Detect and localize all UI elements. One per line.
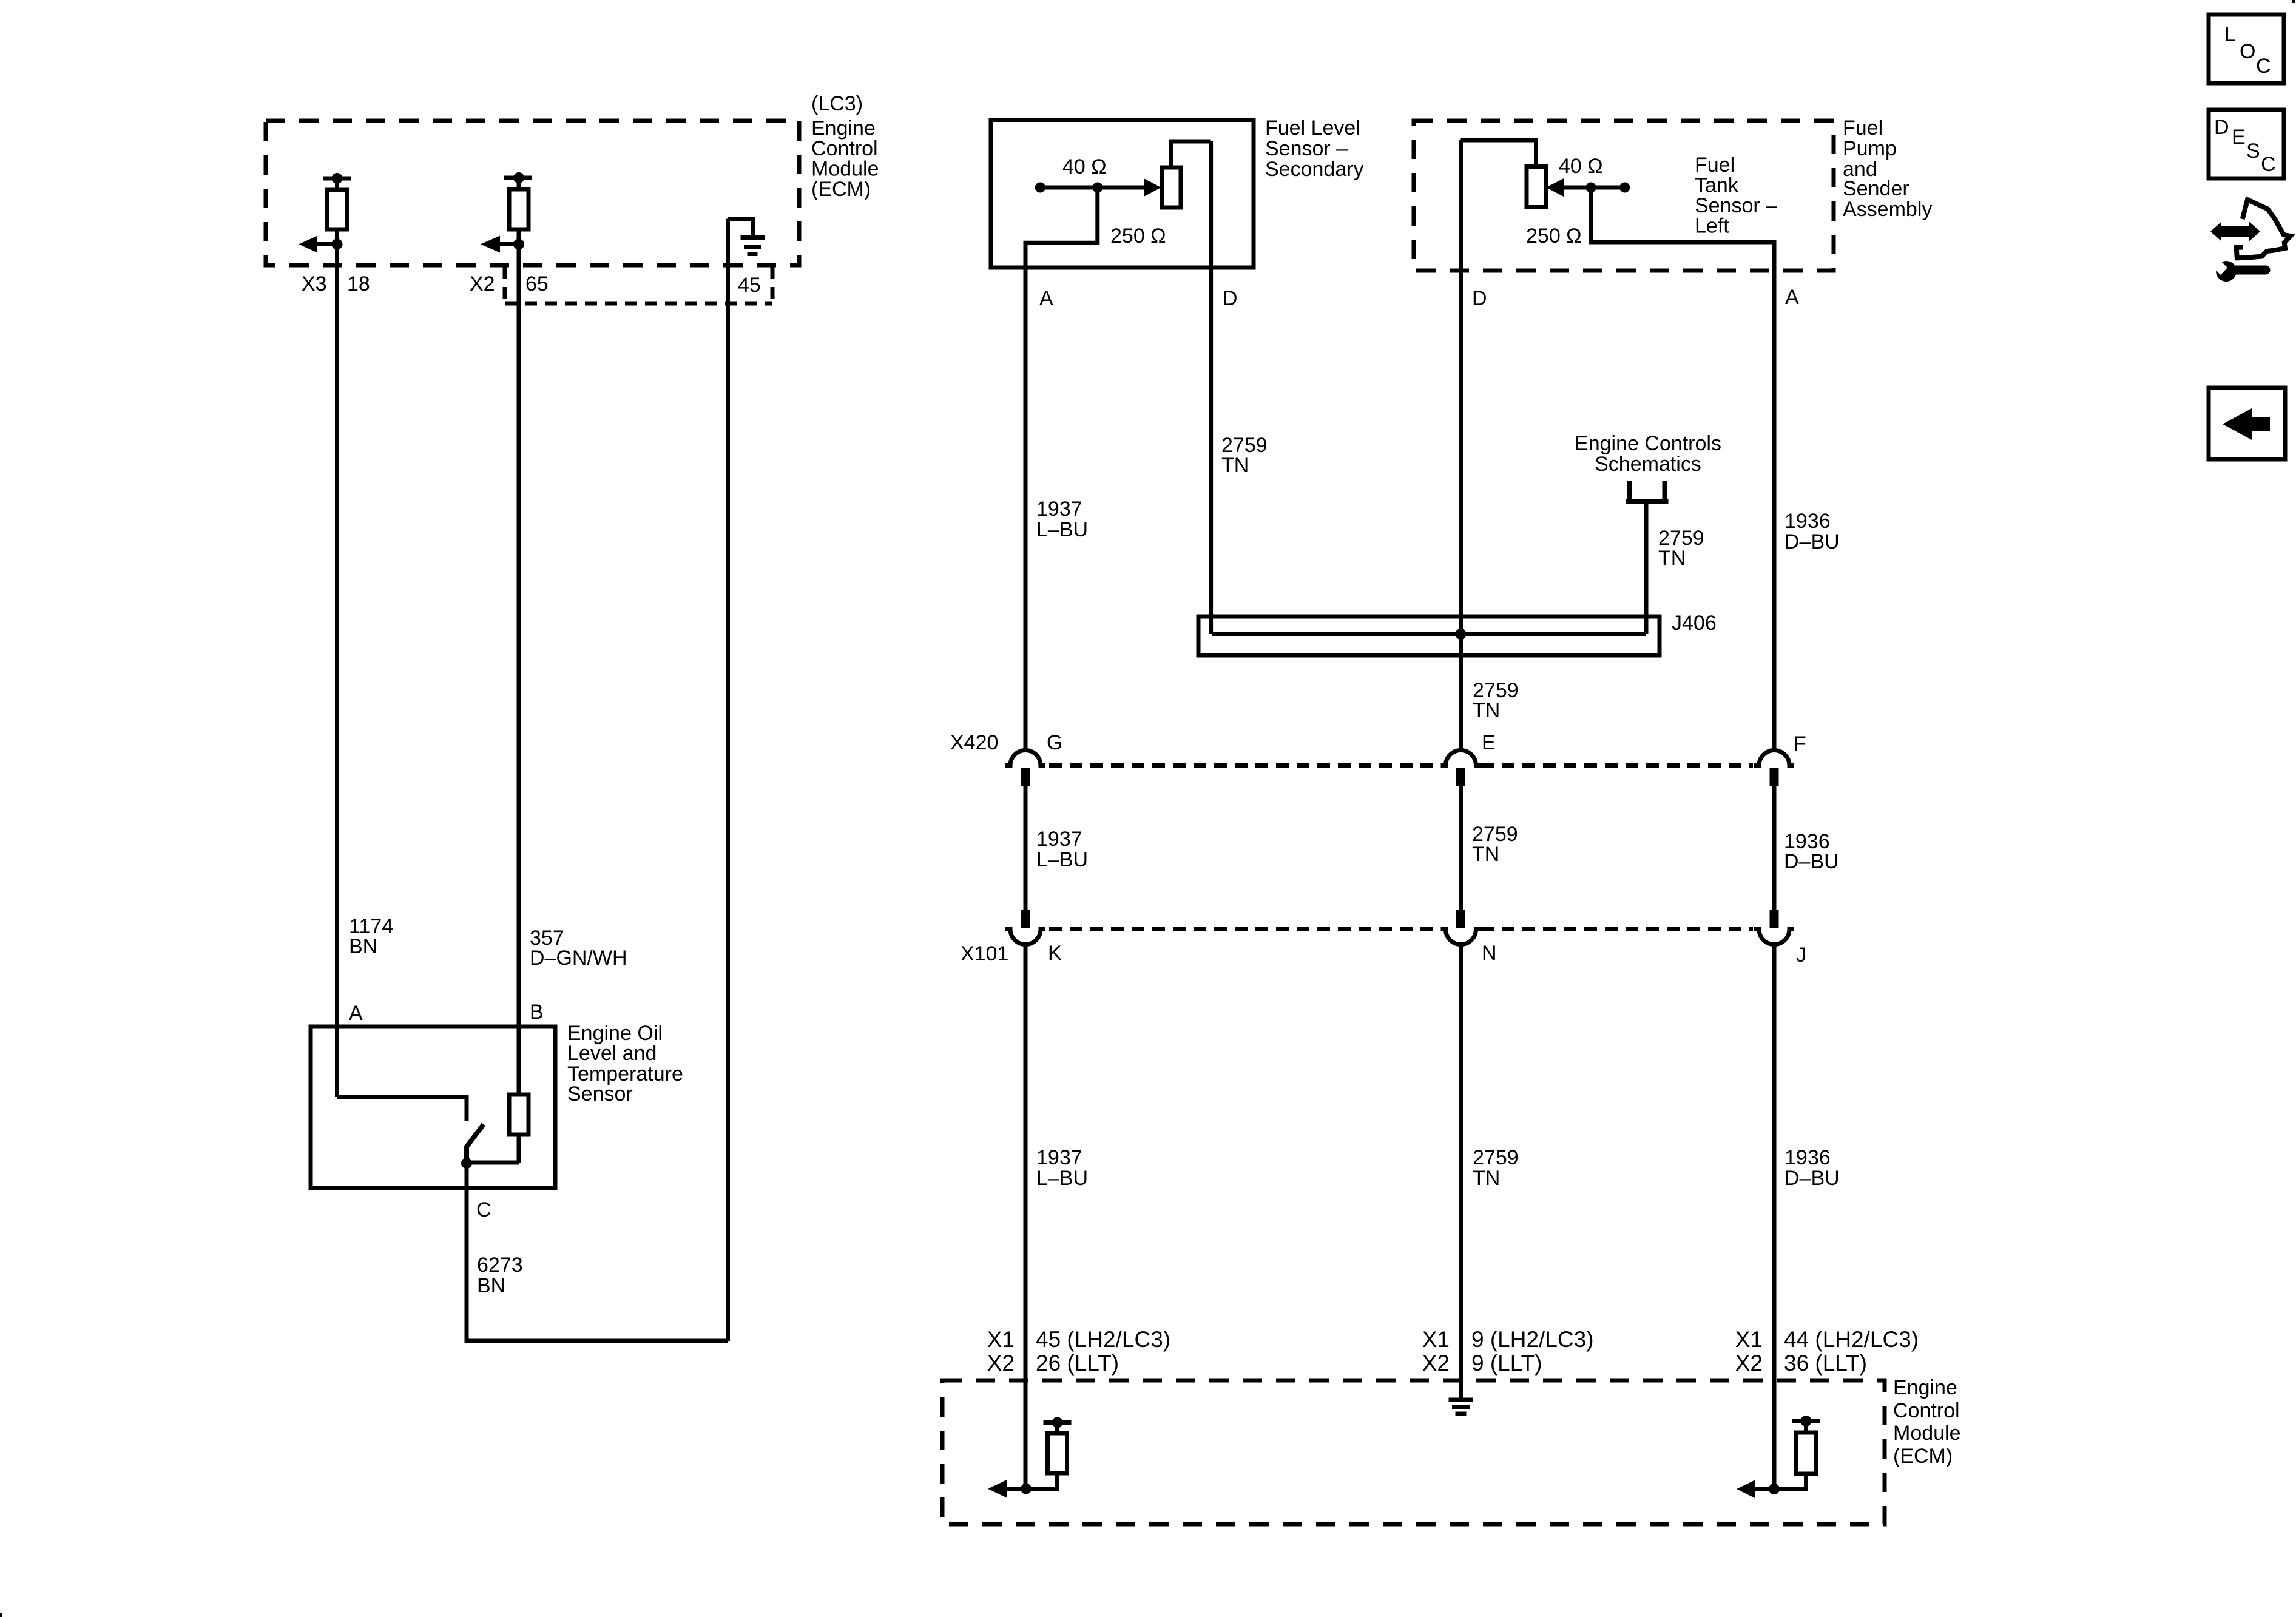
signal arrow at ECM pin X3-18 bbox=[299, 236, 337, 253]
wire 357 D-GN/WH (ECM pin 65 down to sensor pin B) bbox=[517, 245, 521, 1095]
signal arrow at ECM X1-44 bbox=[1737, 1480, 1774, 1499]
wire label 1937 L-BU (lower) bbox=[1036, 1146, 1088, 1190]
signal arrow at ECM X1-45 bbox=[988, 1480, 1026, 1498]
svg-text:Module: Module bbox=[811, 158, 879, 181]
Fuel Level Sensor - Secondary box bbox=[991, 120, 1254, 268]
svg-text:BN: BN bbox=[477, 1274, 505, 1297]
svg-text:Engine Controls: Engine Controls bbox=[1575, 432, 1721, 455]
svg-text:X2: X2 bbox=[987, 1351, 1015, 1376]
off-page reference: Engine Controls Schematics bbox=[1575, 432, 1721, 476]
svg-text:(ECM): (ECM) bbox=[1893, 1445, 1953, 1468]
wire 2759 TN (tank D down through J406 and connectors) bbox=[1459, 140, 1463, 751]
connector terminal X101-J bbox=[1754, 910, 1794, 945]
svg-text:L–BU: L–BU bbox=[1036, 518, 1088, 541]
connector row X420 dashed line bbox=[1049, 763, 1753, 768]
svg-text:C: C bbox=[2256, 55, 2271, 78]
ECM pin label X2 (left) bbox=[987, 1351, 1015, 1376]
ECM pin label 9 (LLT) bbox=[1471, 1351, 1542, 1376]
potentiometer wiper (left tank sensor) bbox=[1546, 178, 1630, 197]
svg-text:X2: X2 bbox=[470, 272, 495, 295]
svg-text:Engine: Engine bbox=[811, 117, 876, 140]
svg-text:Sender: Sender bbox=[1843, 177, 1909, 200]
svg-text:45: 45 bbox=[738, 274, 761, 297]
svg-text:E: E bbox=[2232, 126, 2246, 149]
svg-text:Tank: Tank bbox=[1695, 174, 1739, 197]
svg-text:1937: 1937 bbox=[1036, 1146, 1082, 1169]
icon service/remove (double arrow) bbox=[2210, 222, 2260, 241]
svg-text:9 (LLT): 9 (LLT) bbox=[1471, 1351, 1542, 1376]
svg-text:1937: 1937 bbox=[1036, 498, 1082, 521]
svg-text:6273: 6273 bbox=[477, 1254, 523, 1277]
splice pack J406 bbox=[1198, 616, 1660, 655]
icon DESC box bbox=[2209, 110, 2284, 178]
resistor R5 (oil temperature sensing element) bbox=[467, 1095, 528, 1163]
svg-text:D–BU: D–BU bbox=[1784, 530, 1840, 553]
svg-text:X101: X101 bbox=[961, 942, 1008, 965]
svg-text:O: O bbox=[2240, 40, 2255, 63]
label J406 bbox=[1672, 612, 1717, 635]
ECM (LC3) dashed module box bbox=[266, 121, 799, 265]
svg-text:9 (LH2/LC3): 9 (LH2/LC3) bbox=[1471, 1327, 1594, 1352]
svg-text:TN: TN bbox=[1658, 547, 1686, 570]
pin label D (secondary sensor) bbox=[1223, 287, 1238, 310]
label: Fuel Tank Sensor - Left bbox=[1695, 154, 1777, 238]
svg-text:B: B bbox=[530, 1001, 544, 1024]
resistor R3 (secondary sender element) bbox=[1162, 141, 1211, 208]
resistor R1 (ECM internal, pin X3-18) bbox=[323, 173, 351, 245]
svg-text:Fuel: Fuel bbox=[1843, 116, 1883, 140]
ECM pin label X1 (left) bbox=[987, 1327, 1015, 1352]
Engine Oil Level and Temperature Sensor box bbox=[311, 1027, 555, 1188]
pin label X3 bbox=[302, 272, 327, 295]
wire label 2759 TN (upper, pin D secondary) bbox=[1221, 434, 1268, 477]
junction node at pin 65 bbox=[513, 239, 524, 250]
svg-text:X1: X1 bbox=[1422, 1327, 1450, 1352]
icon service/remove (wrench) bbox=[2207, 254, 2266, 282]
pin label E bbox=[1482, 731, 1496, 754]
ECM pin label X2 (right) bbox=[1735, 1351, 1763, 1376]
value label 250 ohm (secondary) bbox=[1110, 224, 1166, 248]
ECM pin label X1 (middle) bbox=[1422, 1327, 1450, 1352]
svg-text:G: G bbox=[1047, 731, 1062, 754]
svg-text:D: D bbox=[1223, 287, 1238, 310]
ground symbol inside ECM (pin 45) bbox=[728, 219, 765, 257]
icon service/remove (component outline) bbox=[2237, 200, 2291, 258]
svg-text:2759: 2759 bbox=[1473, 1146, 1519, 1169]
corner speck bottom left bbox=[0, 1613, 2, 1617]
svg-text:Fuel: Fuel bbox=[1695, 154, 1735, 177]
pin label N bbox=[1482, 942, 1497, 965]
svg-text:Sensor –: Sensor – bbox=[1695, 194, 1777, 217]
label: Fuel Pump and Sender Assembly bbox=[1843, 116, 1932, 221]
wire 1174 BN (ECM pin 18 down to sensor pin A) bbox=[335, 245, 339, 1098]
pin label D (left tank sensor) bbox=[1472, 287, 1487, 310]
potentiometer wiper (secondary sensor) bbox=[1035, 178, 1161, 197]
svg-text:X1: X1 bbox=[987, 1327, 1015, 1352]
svg-text:Left: Left bbox=[1695, 215, 1729, 238]
ECM pin label 45 (LH2/LC3) bbox=[1036, 1327, 1170, 1352]
pin label 18 bbox=[347, 272, 370, 295]
svg-text:D–BU: D–BU bbox=[1784, 850, 1839, 873]
label X420 bbox=[950, 731, 998, 754]
svg-text:44 (LH2/LC3): 44 (LH2/LC3) bbox=[1784, 1327, 1919, 1352]
wire label 1936 D-BU (upper) bbox=[1784, 510, 1840, 553]
ECM pin label 26 (LLT) bbox=[1036, 1351, 1119, 1376]
corner speck top right bbox=[2292, 0, 2295, 3]
connector terminal X101-K bbox=[1005, 910, 1045, 945]
connector terminal X420-F bbox=[1754, 751, 1794, 787]
value label 40 ohm (secondary) bbox=[1062, 155, 1107, 178]
off-page connector symbol bbox=[1626, 481, 1669, 502]
label: (LC3) Engine Control Module (ECM) bbox=[811, 92, 879, 201]
svg-text:Module: Module bbox=[1893, 1422, 1961, 1445]
connector row X101 dashed line bbox=[1049, 927, 1753, 931]
svg-text:Secondary: Secondary bbox=[1265, 158, 1364, 181]
svg-text:40 Ω: 40 Ω bbox=[1062, 155, 1107, 178]
resistor R6 (ECM internal, left) bbox=[1026, 1417, 1072, 1489]
svg-text:D–GN/WH: D–GN/WH bbox=[530, 947, 627, 970]
Engine Control Module (ECM) bottom dashed box bbox=[942, 1380, 1885, 1524]
svg-text:X3: X3 bbox=[302, 272, 327, 295]
pin label K bbox=[1048, 942, 1062, 965]
wire label 1937 L-BU (upper) bbox=[1036, 498, 1088, 541]
pin label 45 bbox=[738, 274, 761, 297]
svg-text:D: D bbox=[1472, 287, 1487, 310]
wire 1937 L-BU (X101-K to ECM X1-45) bbox=[1024, 944, 1028, 1489]
svg-text:S: S bbox=[2246, 140, 2260, 163]
junction node at pin 18 bbox=[332, 239, 343, 250]
svg-text:F: F bbox=[1794, 732, 1806, 755]
svg-text:(ECM): (ECM) bbox=[811, 178, 871, 201]
resistor R4 (left tank sender element) bbox=[1461, 140, 1546, 208]
svg-text:1936: 1936 bbox=[1784, 1146, 1831, 1169]
svg-text:26 (LLT): 26 (LLT) bbox=[1036, 1351, 1119, 1376]
svg-text:A: A bbox=[1039, 287, 1053, 310]
svg-text:65: 65 bbox=[525, 272, 549, 295]
wire label 1937 L-BU (middle) bbox=[1036, 828, 1088, 871]
svg-text:D–BU: D–BU bbox=[1784, 1167, 1840, 1190]
wire 1936 D-BU (X420-F to X101-J) bbox=[1772, 786, 1777, 911]
junction node (secondary 250 ohm tap) bbox=[1092, 183, 1102, 193]
signal arrow at ECM pin X2-65 bbox=[481, 236, 519, 253]
svg-text:250 Ω: 250 Ω bbox=[1526, 224, 1582, 248]
svg-text:X420: X420 bbox=[950, 731, 998, 754]
svg-text:250 Ω: 250 Ω bbox=[1110, 224, 1166, 248]
pin label A (secondary sensor) bbox=[1039, 287, 1053, 310]
svg-text:18: 18 bbox=[347, 272, 370, 295]
wire 1937 L-BU (X420-G to X101-K) bbox=[1024, 786, 1028, 911]
svg-text:D: D bbox=[2214, 116, 2229, 139]
label X101 bbox=[961, 942, 1008, 965]
svg-text:J: J bbox=[1796, 944, 1806, 967]
junction node on J406 bus bbox=[1456, 629, 1467, 640]
svg-text:Schematics: Schematics bbox=[1595, 453, 1701, 476]
Fuel Pump and Sender Assembly dashed box bbox=[1414, 121, 1834, 271]
wire label 6273 BN bbox=[477, 1254, 523, 1297]
wire 2759 TN (X420-E to X101-N) bbox=[1459, 786, 1463, 911]
svg-text:BN: BN bbox=[349, 935, 377, 958]
ECM pin label X2 (middle) bbox=[1422, 1351, 1450, 1376]
wire 1937 L-BU (sensor A down through connectors to ECM) bbox=[1025, 187, 1098, 751]
oil level switch (inside sensor) bbox=[337, 1097, 484, 1163]
svg-text:L: L bbox=[2224, 23, 2236, 46]
wire 6273 BN (sensor pin C to ground path) bbox=[467, 1163, 728, 1341]
svg-text:L–BU: L–BU bbox=[1036, 848, 1088, 871]
svg-text:TN: TN bbox=[1221, 454, 1249, 477]
wire label 1936 D-BU (lower) bbox=[1784, 1146, 1840, 1190]
junction node C inside sensor bbox=[461, 1158, 472, 1169]
pin label X2 bbox=[470, 272, 495, 295]
svg-text:36 (LLT): 36 (LLT) bbox=[1784, 1351, 1867, 1376]
svg-text:C: C bbox=[2261, 153, 2276, 176]
value label 250 ohm (left tank) bbox=[1526, 224, 1582, 248]
pin label A (oil sensor) bbox=[349, 1002, 363, 1025]
junction node (left tank 250 ohm tap) bbox=[1586, 183, 1596, 193]
pin label F bbox=[1794, 732, 1806, 755]
svg-text:(LC3): (LC3) bbox=[811, 92, 863, 115]
ECM pin label 36 (LLT) bbox=[1784, 1351, 1867, 1376]
value label 40 ohm (left tank) bbox=[1559, 155, 1603, 178]
pin label A (left tank sensor) bbox=[1785, 286, 1799, 309]
connector X2 small dashed box around pins 65 and 45 bbox=[505, 267, 772, 303]
svg-text:A: A bbox=[349, 1002, 363, 1025]
wire label 1174 BN bbox=[349, 915, 393, 958]
svg-text:TN: TN bbox=[1473, 1167, 1500, 1190]
wire label 2759 TN (schematics stem) bbox=[1658, 527, 1704, 570]
wire 2759 TN (schematics stem to J406) bbox=[1644, 501, 1649, 634]
resistor R2 (ECM internal, pin X2-65) bbox=[504, 172, 532, 245]
wire 45/6273 BN vertical run (ECM pin 45 down) bbox=[726, 219, 730, 1342]
resistor R7 (ECM internal, right) bbox=[1774, 1416, 1820, 1489]
svg-text:C: C bbox=[476, 1198, 491, 1221]
junction node at ECM X1-44 bbox=[1769, 1484, 1780, 1494]
svg-text:Engine: Engine bbox=[1893, 1376, 1957, 1399]
connector terminal X420-E bbox=[1441, 751, 1481, 787]
pin label J bbox=[1796, 944, 1806, 967]
svg-text:Level and: Level and bbox=[567, 1042, 657, 1065]
ECM pin label X1 (right) bbox=[1735, 1327, 1763, 1352]
svg-text:A: A bbox=[1785, 286, 1799, 309]
wire label 2759 TN (middle) bbox=[1472, 823, 1518, 866]
wire 2759 TN (secondary D to splice J406) bbox=[1209, 141, 1213, 634]
svg-text:45 (LH2/LC3): 45 (LH2/LC3) bbox=[1036, 1327, 1170, 1352]
pin label C bbox=[476, 1198, 491, 1221]
svg-text:TN: TN bbox=[1472, 843, 1499, 866]
label: Engine Control Module (ECM) bottom bbox=[1893, 1376, 1961, 1468]
svg-text:L–BU: L–BU bbox=[1036, 1167, 1088, 1190]
svg-text:X2: X2 bbox=[1735, 1351, 1763, 1376]
ECM pin label 9 (LH2/LC3) bbox=[1471, 1327, 1594, 1352]
pin label 65 bbox=[525, 272, 549, 295]
svg-text:E: E bbox=[1482, 731, 1496, 754]
wire 2759 TN (X101-N to ECM ground) bbox=[1459, 944, 1463, 1398]
svg-text:TN: TN bbox=[1473, 699, 1500, 722]
svg-text:1936: 1936 bbox=[1784, 510, 1831, 533]
wire label 1936 D-BU (middle) bbox=[1784, 830, 1839, 873]
ECM pin label 44 (LH2/LC3) bbox=[1784, 1327, 1919, 1352]
wire 1936 D-BU (X101-J to ECM X1-44) bbox=[1772, 944, 1777, 1489]
svg-text:Assembly: Assembly bbox=[1843, 198, 1932, 221]
wire 1936 D-BU (tank A down through connectors to ECM) bbox=[1591, 187, 1774, 751]
icon LOC box bbox=[2209, 15, 2284, 83]
svg-text:N: N bbox=[1482, 942, 1497, 965]
junction node at ECM X1-45 bbox=[1021, 1484, 1032, 1494]
svg-text:40 Ω: 40 Ω bbox=[1559, 155, 1603, 178]
pin label B (oil sensor) bbox=[530, 1001, 544, 1024]
svg-text:J406: J406 bbox=[1672, 612, 1717, 635]
label: Fuel Level Sensor - Secondary bbox=[1265, 116, 1364, 181]
svg-text:X2: X2 bbox=[1422, 1351, 1450, 1376]
label: Engine Oil Level and Temperature Sensor bbox=[567, 1022, 683, 1106]
wire label 2759 TN (lower) bbox=[1473, 1146, 1519, 1190]
wire label 357 D-GN/WH bbox=[530, 927, 627, 970]
svg-text:Pump: Pump bbox=[1843, 137, 1897, 160]
svg-text:Fuel Level: Fuel Level bbox=[1265, 116, 1360, 140]
connector terminal X101-N bbox=[1441, 910, 1481, 945]
svg-text:Sensor –: Sensor – bbox=[1265, 137, 1348, 160]
svg-text:X1: X1 bbox=[1735, 1327, 1763, 1352]
icon back arrow box bbox=[2209, 388, 2285, 459]
svg-text:Control: Control bbox=[1893, 1399, 1960, 1422]
connector terminal X420-G bbox=[1005, 751, 1045, 787]
svg-text:Sensor: Sensor bbox=[567, 1082, 633, 1106]
svg-text:1937: 1937 bbox=[1036, 828, 1082, 851]
ground symbol inside bottom ECM bbox=[1449, 1398, 1473, 1416]
wire label 2759 TN (below J406) bbox=[1473, 679, 1519, 722]
svg-text:K: K bbox=[1048, 942, 1062, 965]
pin label G bbox=[1047, 731, 1062, 754]
svg-text:Control: Control bbox=[811, 137, 878, 160]
